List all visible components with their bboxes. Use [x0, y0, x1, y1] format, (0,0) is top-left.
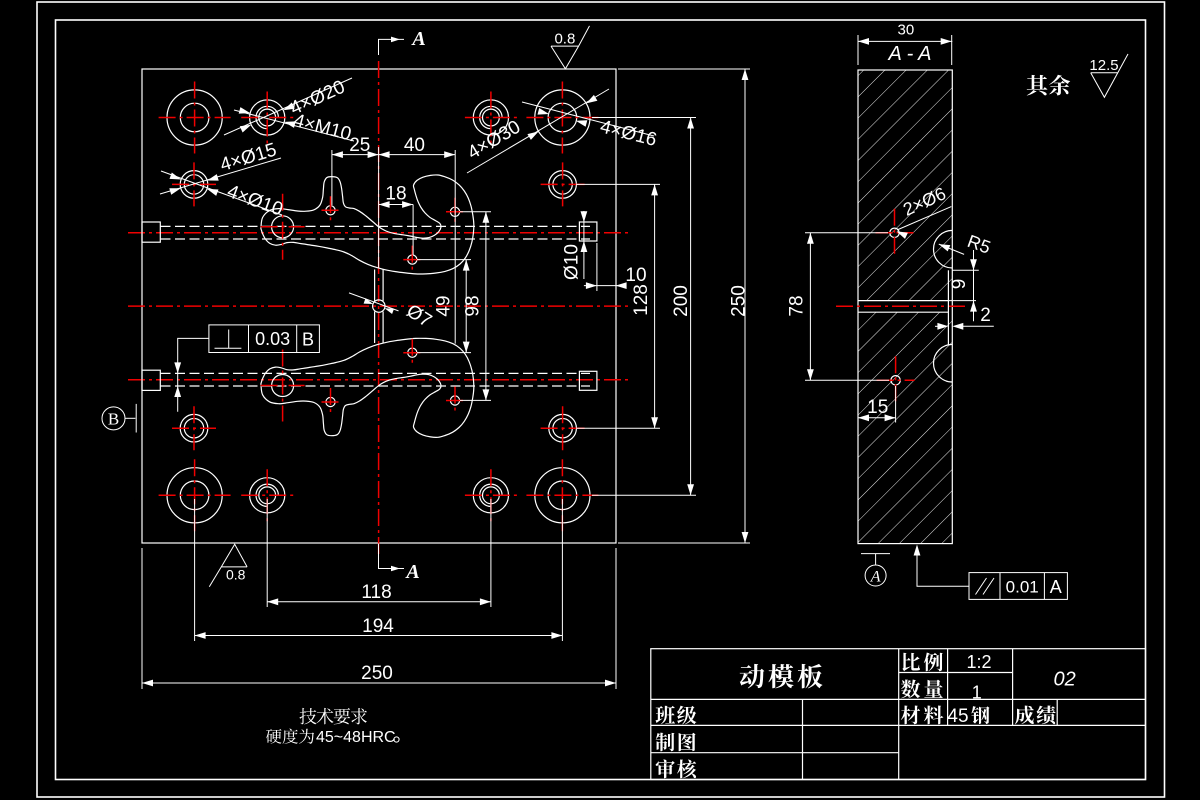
label 2xD6 leader [897, 207, 951, 230]
svg-text:45~48HRC: 45~48HRC [316, 729, 396, 746]
tapped hole 4xD20/4xM10 #1 outer [250, 100, 285, 135]
horizontal centerline lower rail [128, 379, 630, 381]
lower rail left end cap [142, 370, 160, 390]
svg-text:0.8: 0.8 [226, 567, 246, 583]
center hole D7 [373, 300, 385, 312]
section slot lines [858, 300, 948, 302]
label 4xD16 leader [522, 102, 654, 136]
upper rail left end cap [142, 222, 160, 242]
label banji (class) [656, 706, 675, 725]
center slot right edge [382, 270, 384, 301]
svg-text:118: 118 [361, 582, 391, 603]
counterbore hole 4xD30/D15 #2 outer [535, 90, 590, 145]
datum A below section [861, 553, 890, 555]
svg-text:A: A [410, 28, 425, 50]
svg-text:Ø10: Ø10 [562, 244, 583, 280]
section notch upper (R5) [934, 230, 953, 268]
dimension 30 (section width) [857, 35, 859, 65]
hole 4xD15/4xD10 #3 outer [180, 414, 208, 442]
svg-text:15: 15 [867, 397, 888, 418]
svg-text:194: 194 [362, 616, 394, 637]
section inset edge [947, 270, 949, 344]
lobe hole upper cam [272, 216, 294, 238]
dimension 49 [417, 259, 471, 261]
label shenhe (checked by) [656, 759, 675, 778]
dimension 2 [935, 325, 941, 327]
surface finish 0.8 top [551, 26, 590, 69]
label 4xD15 leader [160, 158, 281, 194]
dimension D10 rail width [583, 211, 585, 279]
label zhitu (drawn by) [656, 733, 675, 752]
svg-text:A - A: A - A [888, 43, 932, 65]
ideographic full stop [394, 737, 399, 742]
section notch lower [934, 344, 953, 382]
svg-text:B: B [108, 410, 119, 429]
label cailiao (material) [901, 706, 920, 725]
svg-text:30: 30 [898, 22, 915, 39]
counterbore hole 4xD30/D15 #3 outer [167, 468, 222, 523]
svg-text:200: 200 [671, 285, 692, 317]
title block grid [651, 649, 1146, 780]
svg-text:2: 2 [980, 305, 991, 326]
tapped hole 4xD20/4xM10 #2 outer [473, 100, 508, 135]
label 4xD10 leader [161, 171, 282, 215]
section mark A top [379, 39, 405, 55]
tolerance frame perpendicularity 0.03 B [209, 325, 320, 353]
svg-text:02: 02 [1053, 669, 1075, 691]
dimension 194 [194, 499, 196, 641]
svg-text:A: A [404, 561, 419, 583]
label chengji (grade) [1015, 706, 1034, 725]
svg-text:1:2: 1:2 [966, 652, 991, 672]
svg-text:49: 49 [434, 295, 455, 316]
tech requirements heading [299, 708, 316, 724]
surface mark 12.5 [1091, 54, 1128, 97]
lobe hole lower cam [272, 375, 294, 397]
center slot left edge [374, 270, 376, 301]
tapped hole 4xD20/4xM10 #3 outer [250, 478, 285, 513]
surface finish 0.8 bottom [209, 544, 247, 587]
upper guide rail hidden lines [161, 225, 591, 227]
counterbore hole 4xD30/D15 #4 outer [535, 468, 590, 523]
dimension 200 [592, 117, 696, 119]
dimension 128 [576, 183, 660, 185]
dimension 98 [460, 211, 491, 213]
svg-text:A: A [1050, 577, 1062, 597]
dimension 118 [266, 499, 268, 607]
small profile circles with red crosses [326, 206, 335, 215]
dimension 10 [596, 243, 598, 291]
tapped hole 4xD20/4xM10 #4 outer [473, 478, 508, 513]
cam profile upper [261, 175, 474, 274]
datum B symbol [102, 407, 125, 430]
hardness note [266, 729, 282, 744]
upper rail right end cap [579, 222, 597, 241]
label 4xM10 leader [234, 110, 354, 141]
svg-text:1: 1 [972, 683, 982, 703]
section holes 2xD6 [890, 228, 899, 237]
svg-text:9: 9 [949, 279, 970, 290]
svg-text:0.8: 0.8 [554, 31, 575, 48]
hole 4xD15/4xD10 #1 outer [180, 171, 208, 199]
svg-text:A: A [870, 569, 881, 586]
svg-text:128: 128 [631, 284, 652, 316]
svg-text:40: 40 [404, 135, 425, 156]
counterbore hole 4xD30/D15 #1 outer [167, 90, 222, 145]
horizontal centerline upper rail [128, 232, 630, 234]
svg-text:10: 10 [625, 265, 646, 286]
svg-text:98: 98 [462, 295, 483, 316]
dimension 25 [331, 150, 333, 205]
svg-text:78: 78 [787, 295, 808, 316]
label bili (scale) [902, 653, 920, 671]
leader from frame to lower rail [178, 338, 209, 411]
svg-text:0.03: 0.03 [255, 329, 290, 349]
label R5 leader [939, 244, 964, 254]
parallelism frame 0.01 A [917, 547, 969, 586]
svg-text:250: 250 [361, 663, 393, 684]
svg-text:B: B [302, 330, 314, 350]
label shuliang (quantity) [901, 680, 920, 699]
dimension 9 [952, 269, 979, 271]
svg-text:250: 250 [729, 285, 750, 317]
cam profile lower (mirror) [261, 338, 474, 437]
svg-text:25: 25 [349, 135, 370, 156]
title dongmoban (moving mold plate) [740, 664, 765, 688]
dimension 78 [805, 232, 888, 234]
vertical centerline of plate [378, 61, 380, 557]
horizontal centerline middle [128, 305, 630, 307]
lower rail right end cap [579, 371, 597, 390]
section centerline slot [836, 305, 966, 307]
section outline [858, 70, 952, 544]
label 4xD20 leader [224, 78, 352, 135]
svg-text:0.01: 0.01 [1006, 578, 1039, 597]
lower guide rail hidden lines [161, 372, 591, 374]
svg-text:45: 45 [947, 706, 968, 727]
main plate outline [142, 69, 616, 543]
label D7 leader through center hole [349, 293, 399, 311]
dimension 18 [412, 205, 414, 256]
svg-text:18: 18 [385, 184, 406, 205]
text qiyu (rest surfaces) [1027, 75, 1048, 96]
label 4xD30 leader [467, 89, 609, 173]
dimension 15 [895, 386, 897, 423]
dimension 250 right [618, 68, 750, 70]
section mark A bottom [379, 544, 405, 569]
dimension 250 bottom [141, 548, 143, 689]
hole 4xD15/4xD10 #2 outer [549, 171, 577, 199]
svg-text:12.5: 12.5 [1089, 57, 1118, 74]
hole 4xD15/4xD10 #4 outer [549, 414, 577, 442]
